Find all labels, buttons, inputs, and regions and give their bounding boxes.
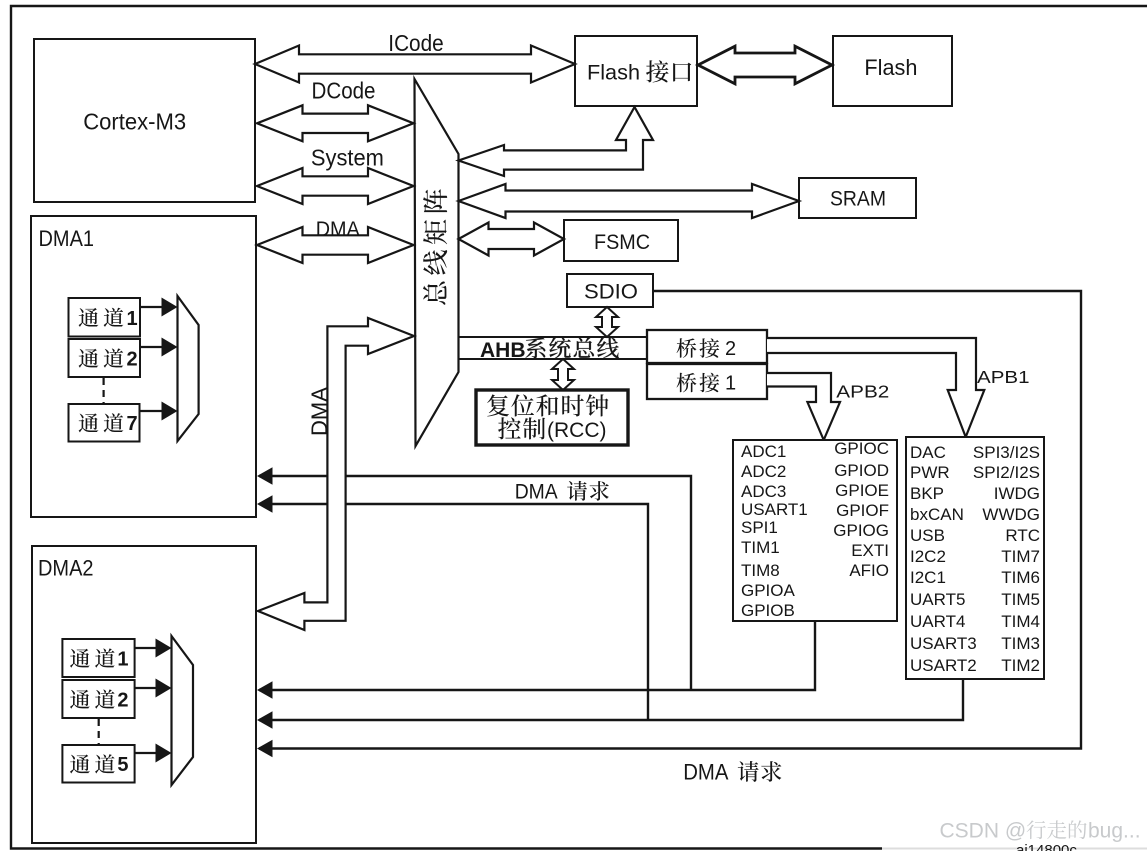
bus arrow DCode — [257, 105, 414, 141]
wire APB2 -> DMA req trunk — [259, 621, 815, 690]
svg-text:DMA: DMA — [515, 479, 558, 504]
block SDIO box — [567, 274, 653, 307]
bus arrow ICode (Cortex-M3 <-> Flash 接口) — [255, 46, 575, 83]
wire SDIO -> DMA2 req — [259, 291, 1081, 749]
svg-text:I2C1: I2C1 — [910, 568, 946, 587]
svg-text:USART3: USART3 — [910, 634, 977, 653]
label 通道5 (DMA2) — [70, 755, 90, 774]
label 通道7 — [79, 413, 99, 432]
svg-text:1: 1 — [725, 373, 736, 395]
svg-text:GPIOE: GPIOE — [835, 481, 889, 500]
bus arrow matrix <-> SRAM — [459, 184, 800, 218]
label 通道2 (DMA2) — [70, 690, 90, 709]
svg-text:DCode: DCode — [312, 77, 376, 103]
label 桥接2 — [677, 338, 697, 358]
svg-text:UART4: UART4 — [910, 612, 965, 631]
AHB system bus rail — [459, 337, 648, 359]
svg-text:Cortex-M3: Cortex-M3 — [83, 109, 186, 135]
label 通道1 — [79, 308, 99, 327]
block Cortex-M3 box — [34, 39, 255, 202]
svg-text:TIM5: TIM5 — [1001, 590, 1040, 609]
block Flash box — [833, 36, 952, 106]
outer frame bottom faded segment — [882, 848, 1147, 850]
svg-text:AHB: AHB — [480, 339, 526, 362]
svg-text:SRAM: SRAM — [830, 187, 886, 211]
svg-text:7: 7 — [127, 413, 138, 435]
svg-text:Flash: Flash — [587, 61, 640, 85]
svg-text:TIM6: TIM6 — [1001, 568, 1040, 587]
svg-text:2: 2 — [725, 338, 736, 360]
bus arrow DMA (DMA1 <-> matrix) — [257, 227, 414, 263]
channel box 通道2 (DMA1) — [69, 339, 141, 377]
svg-text:ADC1: ADC1 — [741, 442, 786, 461]
block APB2 peripherals box — [733, 440, 897, 621]
wire 通道->mux (DMA1) y=307 — [140, 306, 163, 308]
svg-text:I2C2: I2C2 — [910, 547, 946, 566]
wire 通道->mux (DMA2) y=648 — [135, 647, 157, 649]
arrowhead into DMA2 (SDIO req) — [257, 740, 273, 758]
svg-text:TIM8: TIM8 — [741, 561, 780, 580]
svg-text:APB1: APB1 — [977, 367, 1030, 387]
svg-text:1: 1 — [127, 308, 138, 330]
svg-text:TIM1: TIM1 — [741, 538, 780, 557]
svg-text:BKP: BKP — [910, 484, 944, 503]
svg-text:GPIOF: GPIOF — [836, 501, 889, 520]
wire 通道->mux (DMA1) y=411 — [140, 410, 163, 412]
wire 通道->mux (DMA2) y=753 — [135, 752, 157, 754]
svg-text:GPIOB: GPIOB — [741, 601, 795, 620]
svg-text:SDIO: SDIO — [584, 280, 638, 304]
wire branch APB1 req -> DMA1 — [259, 504, 648, 720]
svg-text:2: 2 — [117, 690, 128, 712]
channel box 通道1 (DMA1) — [69, 298, 141, 337]
svg-text:SPI2/I2S: SPI2/I2S — [973, 463, 1040, 482]
label 总线矩阵 (rotated) — [423, 282, 446, 305]
svg-text:ADC2: ADC2 — [741, 462, 786, 481]
block SRAM box — [799, 178, 916, 218]
svg-text:RTC: RTC — [1005, 526, 1040, 545]
block DMA1 box — [31, 216, 256, 517]
svg-text:ai14800c: ai14800c — [1016, 842, 1077, 851]
svg-text:ADC3: ADC3 — [741, 482, 786, 501]
svg-text:2: 2 — [127, 349, 138, 371]
svg-text:TIM4: TIM4 — [1001, 612, 1040, 631]
svg-text:SPI3/I2S: SPI3/I2S — [973, 443, 1040, 462]
wire APB1 -> DMA req trunk — [259, 679, 963, 720]
block Flash 接口 box — [575, 36, 697, 106]
channel box 通道5 (DMA2) — [62, 745, 134, 783]
label 通道2 — [79, 349, 99, 368]
mux trapezoid (DMA2) — [172, 636, 194, 785]
svg-text:TIM3: TIM3 — [1001, 634, 1040, 653]
svg-text:1: 1 — [117, 649, 128, 671]
svg-text:GPIOC: GPIOC — [834, 439, 889, 458]
arrowhead into DMA1 (APB2 req) — [257, 467, 273, 485]
label 桥接1 — [677, 373, 697, 393]
bus duct matrix <-> Flash接口 (L-shape) — [459, 107, 654, 176]
svg-text:PWR: PWR — [910, 463, 950, 482]
bus duct DMA (matrix <-> DMA2, Z-shape) — [258, 318, 414, 630]
arrowhead into DMA2 (APB2 req) — [257, 681, 273, 699]
svg-text:CSDN @: CSDN @ — [940, 820, 1027, 843]
svg-text:DMA: DMA — [316, 216, 360, 241]
label 复位和时钟控制(RCC) — [487, 394, 509, 416]
svg-text:FSMC: FSMC — [594, 230, 650, 254]
svg-text:GPIOG: GPIOG — [833, 521, 889, 540]
svg-text:UART5: UART5 — [910, 590, 965, 609]
wire branch APB2 req -> DMA1 — [259, 476, 691, 690]
arrowhead into DMA1 (APB1 req) — [257, 495, 273, 513]
svg-text:USART1: USART1 — [741, 500, 808, 519]
svg-text:DMA: DMA — [683, 760, 728, 785]
wire 通道->mux (DMA2) y=688 — [135, 687, 157, 689]
svg-text:DMA2: DMA2 — [38, 556, 94, 581]
svg-text:AFIO: AFIO — [849, 561, 889, 580]
duct 桥接1 -> APB2 arrow — [767, 373, 840, 440]
svg-text:USB: USB — [910, 526, 945, 545]
vertical arrow SDIO <-> AHB — [596, 307, 618, 337]
bus arrow Flash接口 <-> Flash — [698, 46, 832, 84]
svg-text:TIM2: TIM2 — [1001, 656, 1040, 675]
block 桥接1 box — [647, 364, 767, 399]
wire 通道->mux (DMA1) y=347 — [140, 346, 163, 348]
duct 桥接2 -> APB1 arrow — [767, 338, 984, 437]
mux trapezoid (DMA1) — [178, 296, 199, 441]
bus arrow matrix <-> FSMC — [459, 223, 565, 256]
channel box 通道1 (DMA2) — [62, 639, 134, 677]
svg-text:System: System — [311, 145, 384, 171]
block DMA2 box — [32, 546, 256, 843]
svg-text:EXTI: EXTI — [851, 541, 889, 560]
svg-text:IWDG: IWDG — [994, 484, 1040, 503]
block RCC box — [476, 390, 628, 445]
svg-text:5: 5 — [117, 754, 128, 776]
block APB1 peripherals box — [906, 437, 1044, 679]
channel box 通道7 (DMA1) — [69, 404, 140, 442]
svg-text:DMA1: DMA1 — [39, 226, 95, 251]
bus arrow System — [257, 168, 414, 204]
svg-text:ICode: ICode — [388, 30, 443, 56]
svg-text:WWDG: WWDG — [982, 505, 1040, 524]
svg-text:(RCC): (RCC) — [547, 419, 606, 442]
svg-text:USART2: USART2 — [910, 656, 977, 675]
svg-text:bxCAN: bxCAN — [910, 505, 964, 524]
svg-text:bug...: bug... — [1088, 820, 1141, 843]
svg-text:DMA: DMA — [307, 387, 332, 436]
channel box 通道2 (DMA2) — [62, 680, 134, 718]
block FSMC box — [564, 220, 678, 261]
svg-text:Flash: Flash — [864, 55, 917, 80]
svg-text:APB2: APB2 — [836, 382, 889, 402]
dashed link 通道2..通道7 — [102, 378, 104, 403]
svg-text:SPI1: SPI1 — [741, 518, 778, 537]
arrowhead into DMA2 (APB1 req) — [257, 711, 273, 729]
bus matrix polygon 总线矩阵 — [415, 79, 459, 446]
svg-text:TIM7: TIM7 — [1001, 547, 1040, 566]
dashed link 通道2..通道5 — [98, 719, 100, 744]
svg-text:GPIOD: GPIOD — [834, 461, 889, 480]
label 通道1 (DMA2) — [70, 649, 90, 668]
svg-text:GPIOA: GPIOA — [741, 581, 796, 600]
svg-text:DAC: DAC — [910, 443, 946, 462]
vertical arrow AHB <-> RCC — [552, 359, 574, 390]
block 桥接2 box — [647, 330, 767, 363]
